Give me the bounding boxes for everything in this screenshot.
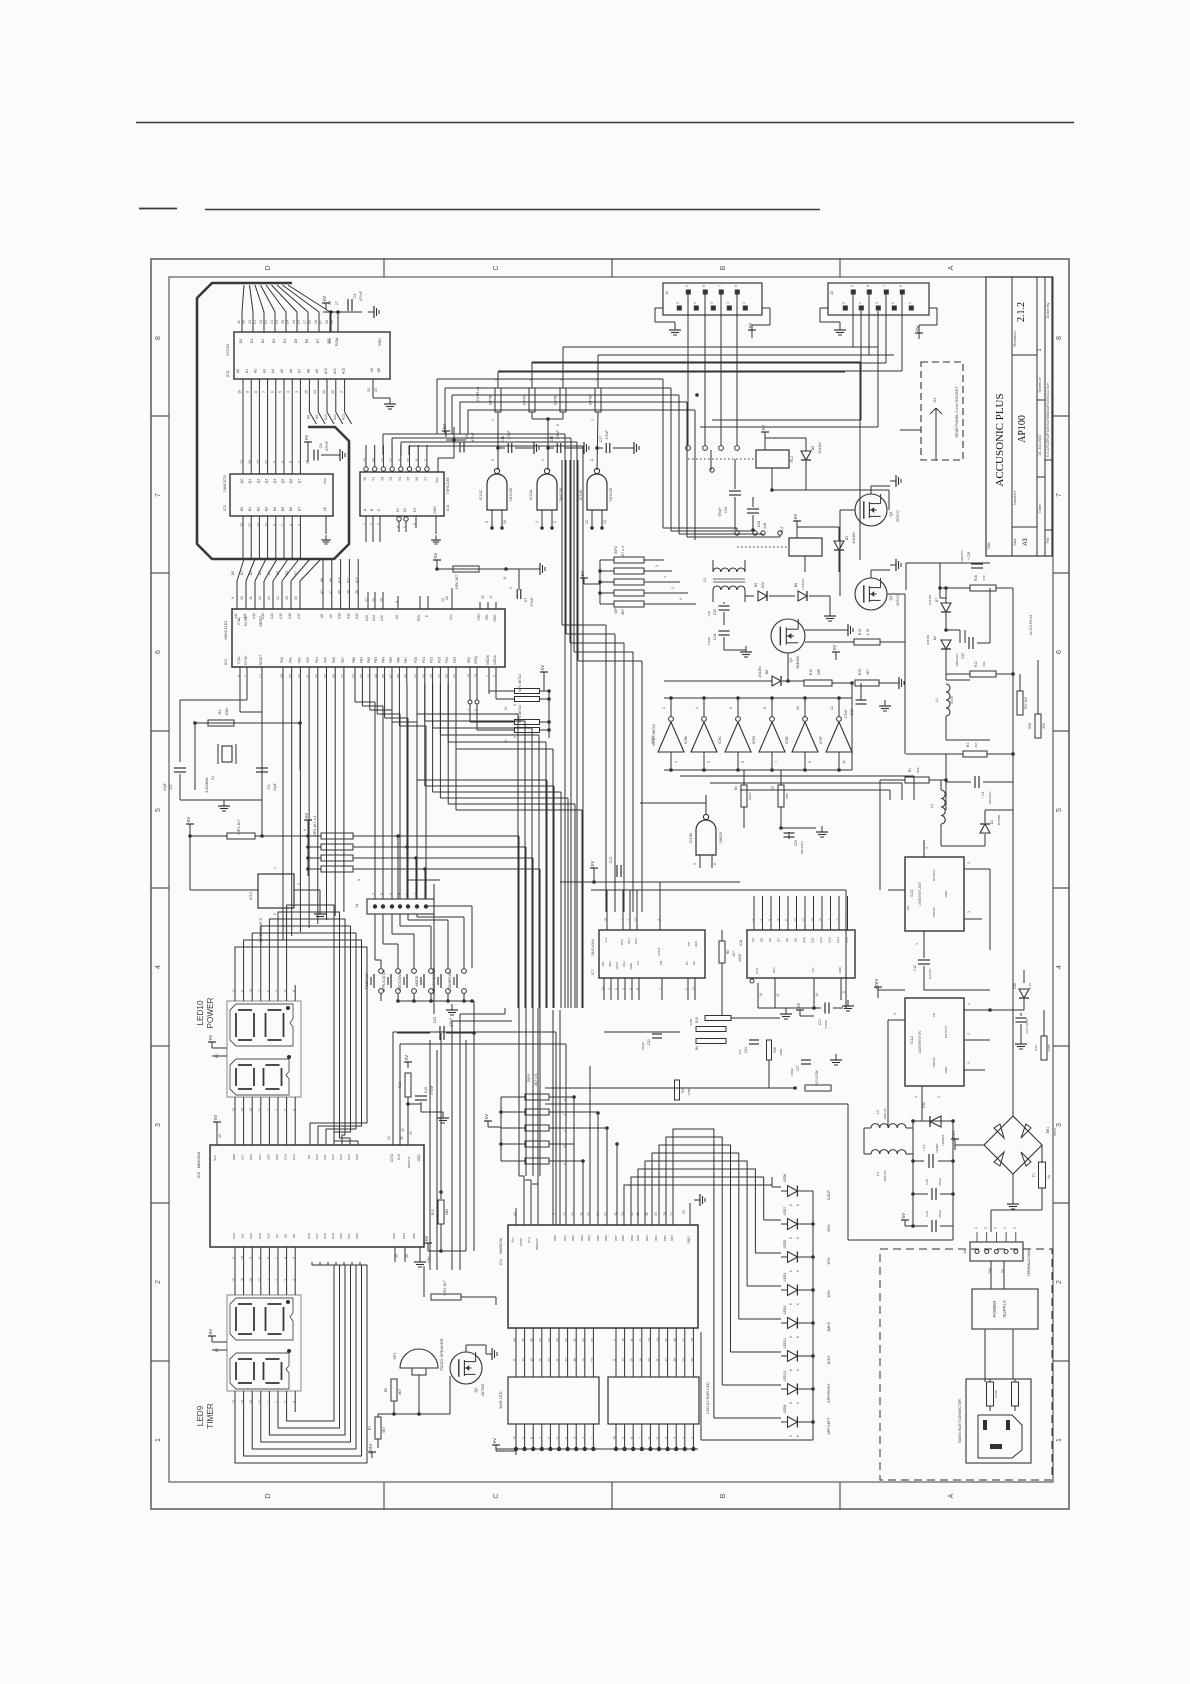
svg-text:PD3: PD3 [437, 657, 441, 663]
svg-text:DB8: DB8 [621, 1235, 625, 1241]
svg-text:6: 6 [281, 461, 285, 463]
svg-text:D7: D7 [319, 320, 323, 325]
svg-text:E2: E2 [403, 508, 407, 512]
svg-text:12: 12 [802, 918, 806, 922]
svg-text:D8: D8 [794, 583, 798, 588]
svg-text:31-Jul-2002: 31-Jul-2002 [1037, 434, 1042, 456]
svg-text:INH: INH [622, 961, 626, 966]
svg-text:29: 29 [409, 1131, 413, 1135]
svg-text:MODA: MODA [493, 654, 497, 664]
svg-text:C2: C2 [169, 785, 173, 790]
svg-text:16: 16 [248, 460, 252, 464]
svg-text:C10: C10 [424, 1087, 428, 1093]
svg-text:SIP9B: SIP9B [489, 394, 493, 405]
svg-text:C22: C22 [647, 1039, 651, 1045]
svg-text:L2: L2 [930, 804, 934, 808]
svg-text:R19: R19 [1034, 1045, 1038, 1051]
svg-text:FB: FB [932, 1013, 936, 1017]
svg-text:+5V: +5V [322, 296, 327, 304]
svg-text:File:: File: [1046, 537, 1050, 544]
svg-text:POWER: POWER [992, 1300, 997, 1318]
svg-text:22pF: 22pF [273, 783, 277, 791]
svg-text:344pF: 344pF [641, 1042, 645, 1051]
svg-text:Q9: Q9 [794, 938, 798, 942]
svg-text:40: 40 [513, 1212, 517, 1216]
svg-text:13: 13 [794, 918, 798, 922]
svg-text:18: 18 [249, 1278, 253, 1282]
svg-text:9: 9 [357, 879, 361, 881]
svg-text:R11: R11 [431, 1209, 435, 1215]
svg-text:PB2: PB2 [367, 657, 371, 663]
svg-text:17: 17 [665, 1358, 669, 1362]
svg-text:Q1: Q1 [789, 657, 793, 662]
svg-text:100nF35V: 100nF35V [800, 841, 804, 854]
svg-text:DB2: DB2 [654, 1235, 658, 1241]
svg-text:6: 6 [303, 829, 307, 831]
svg-text:A15: A15 [279, 613, 283, 619]
svg-text:33: 33 [289, 674, 293, 678]
svg-text:8: 8 [842, 991, 846, 993]
svg-text:6: 6 [729, 707, 733, 709]
svg-text:A1: A1 [245, 369, 249, 373]
svg-text:12: 12 [585, 520, 589, 524]
svg-text:A4: A4 [271, 369, 275, 373]
svg-text:A5: A5 [280, 369, 284, 373]
svg-text:C18: C18 [925, 1179, 929, 1185]
svg-text:3: 3 [993, 1227, 997, 1229]
svg-text:D14: D14 [232, 1233, 236, 1239]
svg-text:1: 1 [273, 867, 277, 869]
svg-text:LED8: LED8 [783, 1405, 787, 1414]
svg-text:RESET: RESET [259, 655, 263, 666]
svg-text:CLK: CLK [527, 1236, 531, 1243]
svg-text:6: 6 [734, 285, 738, 287]
svg-text:6B9: 6B9 [445, 1209, 449, 1215]
svg-text:DB7: DB7 [614, 1235, 618, 1241]
svg-text:10: 10 [622, 1338, 626, 1342]
svg-text:32: 32 [297, 674, 301, 678]
svg-text:50R: 50R [817, 668, 821, 675]
svg-text:A11: A11 [346, 577, 350, 583]
svg-text:R24: R24 [858, 669, 862, 675]
svg-text:74HC4046: 74HC4046 [591, 939, 595, 956]
svg-text:16: 16 [673, 1338, 677, 1342]
svg-text:C31 470nF: C31 470nF [1025, 1018, 1029, 1033]
svg-text:BUK552: BUK552 [796, 656, 800, 669]
svg-text:14: 14 [601, 987, 605, 991]
svg-text:A14: A14 [270, 613, 274, 619]
svg-text:LED10: LED10 [196, 1000, 205, 1025]
svg-text:PB6: PB6 [396, 657, 400, 663]
svg-text:C23: C23 [961, 653, 965, 659]
svg-text:14: 14 [811, 918, 815, 922]
svg-text:GND: GND [944, 1066, 948, 1074]
svg-text:VRH: VRH [477, 613, 481, 620]
svg-text:52: 52 [481, 595, 485, 599]
svg-text:1: 1 [908, 302, 912, 304]
svg-text:J3: J3 [963, 1250, 967, 1254]
svg-text:C29: C29 [794, 840, 798, 846]
svg-text:R1: R1 [908, 768, 912, 772]
svg-text:8: 8 [273, 524, 277, 526]
svg-text:A9: A9 [329, 614, 333, 618]
svg-text:Vcc: Vcc [449, 614, 453, 620]
svg-text:A13: A13 [365, 615, 369, 621]
svg-text:13: 13 [267, 596, 271, 600]
svg-text:11: 11 [241, 989, 245, 993]
svg-text:74HC00: 74HC00 [509, 488, 513, 502]
svg-text:13: 13 [622, 1358, 626, 1362]
svg-text:DB4: DB4 [587, 1235, 591, 1241]
svg-text:COUT: COUT [827, 1189, 831, 1200]
svg-text:14: 14 [372, 458, 376, 462]
svg-text:21: 21 [437, 674, 441, 678]
svg-text:9: 9 [808, 761, 812, 763]
svg-text:A10: A10 [324, 414, 328, 420]
svg-text:A2: A2 [254, 369, 258, 373]
svg-text:5: 5 [403, 526, 407, 528]
svg-text:40: 40 [338, 590, 342, 594]
svg-text:D26: D26 [275, 1154, 279, 1160]
svg-text:MAINS INLET CONNECTOR: MAINS INLET CONNECTOR [958, 1398, 962, 1443]
svg-text:19: 19 [325, 320, 329, 324]
svg-text:4: 4 [695, 707, 699, 709]
svg-text:Vcc: Vcc [328, 338, 332, 344]
svg-text:22: 22 [387, 1136, 391, 1140]
svg-text:10: 10 [613, 1436, 617, 1440]
svg-text:13: 13 [647, 1358, 651, 1362]
svg-text:D0: D0 [242, 320, 246, 325]
svg-text:A8: A8 [320, 614, 324, 618]
svg-text:1: 1 [266, 1401, 270, 1403]
svg-text:8: 8 [866, 285, 870, 287]
svg-text:5: 5 [279, 391, 283, 393]
svg-text:2: 2 [582, 1437, 586, 1439]
svg-text:EXTAL: EXTAL [244, 655, 248, 665]
svg-text:1: 1 [509, 587, 513, 589]
svg-text:1N4184: 1N4184 [818, 442, 822, 453]
svg-text:DB0: DB0 [412, 1233, 416, 1239]
svg-text:K: K [789, 1269, 793, 1272]
svg-text:VRL: VRL [485, 614, 489, 620]
svg-text:PA4: PA4 [315, 657, 319, 663]
svg-text:12: 12 [692, 987, 696, 991]
svg-text:53: 53 [352, 674, 356, 678]
svg-text:R4: R4 [966, 743, 970, 747]
svg-text:17: 17 [565, 1358, 569, 1362]
svg-text:MODB: MODB [486, 655, 490, 665]
svg-text:PD4: PD4 [445, 657, 449, 663]
svg-text:29: 29 [590, 1338, 594, 1342]
svg-text:+5V: +5V [590, 861, 595, 869]
svg-text:18: 18 [249, 1400, 253, 1404]
svg-text:E1: E1 [396, 508, 400, 512]
svg-text:A0: A0 [236, 369, 240, 373]
svg-text:D0: D0 [231, 571, 235, 576]
svg-text:K: K [789, 1368, 793, 1371]
svg-text:12: 12 [258, 596, 262, 600]
svg-text:1: 1 [828, 919, 832, 921]
svg-text:C9: C9 [465, 435, 469, 440]
svg-text:3: 3 [573, 1437, 577, 1439]
svg-text:Q11: Q11 [811, 937, 815, 943]
svg-text:21: 21 [322, 390, 326, 394]
svg-text:20: 20 [590, 1358, 594, 1362]
svg-text:470uF: 470uF [938, 1178, 942, 1186]
svg-text:LED3: LED3 [783, 1306, 787, 1315]
svg-text:11: 11 [630, 1338, 634, 1342]
svg-text:4: 4 [925, 847, 929, 849]
svg-text:1uB: 1uB [707, 611, 711, 617]
svg-text:6: 6 [155, 650, 162, 654]
svg-text:2: 2 [155, 1280, 162, 1284]
svg-text:18: 18 [573, 1358, 577, 1362]
svg-text:D5: D5 [811, 446, 815, 451]
svg-text:5: 5 [289, 461, 293, 463]
svg-text:5: 5 [622, 988, 626, 990]
svg-text:C25: C25 [433, 1017, 437, 1024]
svg-text:Vcc: Vcc [435, 477, 439, 483]
svg-text:A8: A8 [306, 369, 310, 373]
svg-text:PA1: PA1 [289, 657, 293, 663]
svg-text:38: 38 [355, 590, 359, 594]
svg-text:R/W: R/W [417, 615, 421, 621]
svg-text:+5V: +5V [208, 1329, 213, 1337]
svg-text:49: 49 [404, 674, 408, 678]
svg-text:24: 24 [422, 674, 426, 678]
svg-text:4K7: 4K7 [382, 1427, 386, 1433]
svg-text:AP100: AP100 [1017, 415, 1028, 443]
svg-text:4: 4 [657, 919, 661, 921]
svg-text:9: 9 [563, 1163, 567, 1165]
svg-text:17: 17 [259, 674, 263, 678]
svg-text:+24V: +24V [368, 1444, 373, 1455]
svg-text:44: 44 [374, 674, 378, 678]
svg-text:15: 15 [281, 320, 285, 324]
svg-text:OE: OE [377, 367, 381, 373]
svg-text:AI0: AI0 [234, 613, 238, 618]
svg-text:Sheet of: Sheet of [1037, 377, 1042, 393]
svg-text:10: 10 [513, 1436, 517, 1440]
svg-text:C: C [493, 265, 500, 270]
svg-text:27C64: 27C64 [225, 343, 230, 356]
svg-text:5: 5 [693, 863, 697, 865]
svg-text:D4: D4 [286, 320, 290, 325]
svg-text:1: 1 [893, 1013, 897, 1015]
svg-text:6: 6 [785, 919, 789, 921]
svg-text:Q5: Q5 [281, 479, 285, 484]
svg-text:D5: D5 [276, 571, 280, 576]
svg-text:D9: D9 [754, 583, 758, 588]
svg-text:PA5: PA5 [324, 657, 328, 663]
svg-text:A10: A10 [338, 613, 342, 619]
svg-text:MM5451M: MM5451M [499, 1238, 503, 1254]
svg-text:2: 2 [967, 862, 971, 864]
svg-text:01: 01 [504, 706, 508, 710]
svg-text:13: 13 [259, 320, 263, 324]
svg-text:4: 4 [1003, 1227, 1007, 1229]
svg-text:R8: R8 [726, 950, 730, 954]
svg-text:50%: 50% [827, 1224, 831, 1232]
svg-text:C28: C28 [757, 521, 761, 527]
svg-text:IC4: IC4 [499, 1259, 503, 1265]
svg-text:PB0: PB0 [352, 657, 356, 663]
svg-text:2: 2 [275, 1401, 279, 1403]
svg-text:11: 11 [590, 458, 594, 462]
svg-text:4: 4 [396, 526, 400, 528]
svg-text:F1: F1 [1032, 1173, 1036, 1177]
svg-text:D7: D7 [935, 598, 939, 602]
svg-text:A12: A12 [355, 613, 359, 619]
svg-text:31: 31 [306, 674, 310, 678]
svg-text:11: 11 [685, 987, 689, 991]
svg-text:7: 7 [281, 524, 285, 526]
svg-text:7: 7 [775, 761, 779, 763]
svg-text:+5V: +5V [580, 571, 585, 579]
svg-text:+5V: +5V [793, 514, 798, 522]
svg-text:2: 2 [682, 1437, 686, 1439]
svg-text:Q7: Q7 [297, 479, 301, 484]
svg-text:4: 4 [292, 1401, 296, 1403]
svg-text:SIP4: SIP4 [614, 606, 618, 614]
svg-text:7: 7 [424, 459, 428, 461]
svg-text:15: 15 [232, 1400, 236, 1404]
svg-text:470K: 470K [689, 1017, 693, 1025]
svg-text:D3: D3 [275, 320, 279, 325]
svg-text:3: 3 [671, 587, 675, 589]
svg-text:4K7: 4K7 [866, 669, 870, 675]
svg-text:8: 8 [513, 736, 517, 738]
svg-text:1: 1 [535, 521, 539, 523]
svg-text:DATA: DATA [519, 1237, 523, 1246]
svg-text:3: 3 [541, 459, 545, 461]
svg-text:13: 13 [232, 989, 236, 993]
svg-text:16: 16 [241, 1400, 245, 1404]
svg-text:D3: D3 [258, 571, 262, 576]
svg-text:68HC11E1: 68HC11E1 [223, 620, 228, 640]
svg-text:2: 2 [297, 461, 301, 463]
svg-text:4: 4 [777, 919, 781, 921]
svg-text:18: 18 [249, 1108, 253, 1112]
svg-text:2: 2 [340, 391, 344, 393]
svg-text:20: 20 [453, 674, 457, 678]
svg-text:16: 16 [292, 320, 296, 324]
svg-text:D20: D20 [266, 1154, 270, 1160]
svg-text:IC10D: IC10D [579, 489, 583, 500]
svg-text:K: K [789, 1203, 793, 1206]
svg-text:18: 18 [314, 320, 318, 324]
svg-text:+5V: +5V [540, 665, 545, 673]
svg-text:FUSE: FUSE [994, 1390, 998, 1398]
svg-text:BIN: BIN [608, 961, 612, 966]
svg-text:3: 3 [563, 1114, 567, 1116]
svg-text:D2: D2 [845, 536, 849, 541]
svg-text:PB3: PB3 [374, 657, 378, 663]
svg-text:A10: A10 [324, 368, 328, 374]
svg-text:38: 38 [513, 1338, 517, 1342]
svg-text:Q2: Q2 [256, 479, 260, 484]
svg-text:IC9D: IC9D [752, 736, 756, 744]
svg-text:19: 19 [401, 1128, 405, 1132]
svg-text:01: 01 [504, 739, 508, 743]
svg-text:VCOT: VCOT [657, 948, 661, 957]
svg-text:SIP1 4K7x2: SIP1 4K7x2 [518, 674, 522, 692]
svg-text:PA2: PA2 [297, 657, 301, 663]
svg-text:CA: CA [636, 961, 640, 965]
svg-text:C8: C8 [319, 444, 323, 449]
svg-text:D7: D7 [294, 571, 298, 576]
svg-text:2: 2 [967, 1033, 971, 1035]
svg-text:SIP2 4K7: SIP2 4K7 [443, 1280, 447, 1295]
svg-text:27: 27 [335, 301, 339, 305]
svg-text:A11: A11 [346, 613, 350, 619]
svg-text:6: 6 [258, 1257, 262, 1259]
svg-text:K: K [796, 1335, 800, 1338]
svg-text:PA0: PA0 [280, 657, 284, 663]
svg-text:D19: D19 [284, 1154, 288, 1160]
svg-text:+ C1: + C1 [981, 791, 985, 798]
svg-text:15: 15 [530, 1358, 534, 1362]
svg-text:48: 48 [396, 674, 400, 678]
svg-text:AI1: AI1 [243, 613, 247, 618]
svg-text:14: 14 [656, 1338, 660, 1342]
svg-text:PD1: PD1 [422, 657, 426, 663]
svg-text:B: B [370, 508, 374, 511]
svg-text:SIP2 4K7x2: SIP2 4K7x2 [518, 705, 522, 723]
svg-text:5: 5 [768, 919, 772, 921]
svg-text:3: 3 [875, 302, 879, 304]
svg-text:D5: D5 [281, 507, 285, 512]
svg-text:3: 3 [1056, 1123, 1063, 1127]
svg-text:+5V: +5V [404, 1055, 409, 1063]
svg-text:7: 7 [1056, 493, 1063, 497]
svg-text:12: 12 [639, 1338, 643, 1342]
svg-text:3: 3 [707, 761, 711, 763]
svg-text:D16: D16 [307, 1233, 311, 1239]
svg-text:23: 23 [395, 1254, 399, 1258]
svg-text:43: 43 [359, 674, 363, 678]
svg-text:3: 3 [284, 1401, 288, 1403]
svg-text:11: 11 [237, 320, 241, 324]
svg-text:29: 29 [324, 674, 328, 678]
svg-text:CLK: CLK [397, 1153, 401, 1160]
svg-text:4: 4 [491, 419, 495, 421]
svg-text:D4: D4 [267, 571, 271, 576]
svg-text:D1: D1 [248, 507, 252, 512]
svg-text:36: 36 [372, 598, 376, 602]
svg-text:13: 13 [603, 520, 607, 524]
svg-text:X1: X1 [211, 776, 215, 781]
svg-text:D11: D11 [323, 1154, 327, 1160]
svg-text:13: 13 [647, 1338, 651, 1342]
svg-text:31: 31 [573, 1338, 577, 1342]
svg-text:SIP1 4K7: SIP1 4K7 [237, 819, 241, 834]
svg-text:A9: A9 [315, 415, 319, 419]
svg-text:16: 16 [815, 993, 819, 997]
svg-text:IC5: IC5 [196, 1171, 201, 1178]
svg-text:100K: 100K [779, 1048, 783, 1055]
svg-text:A3: A3 [1023, 538, 1029, 546]
svg-text:DB4: DB4 [402, 1233, 406, 1239]
svg-text:Q6: Q6 [768, 938, 772, 942]
svg-text:J1: J1 [489, 595, 493, 599]
svg-text:C13: C13 [850, 709, 854, 715]
svg-text:BR1: BR1 [1046, 1127, 1050, 1134]
svg-text:470nF: 470nF [530, 597, 534, 606]
svg-text:Vcc: Vcc [323, 478, 327, 484]
svg-text:Vcc: Vcc [604, 937, 608, 943]
svg-text:3: 3 [295, 391, 299, 393]
